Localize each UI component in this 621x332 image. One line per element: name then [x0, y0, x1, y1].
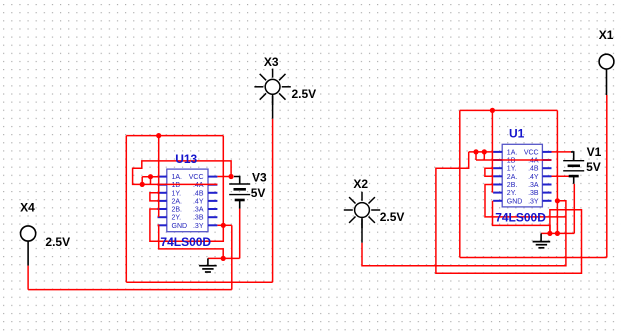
- wire pin 4Y to battery column: [552, 175, 571, 177]
- wire link 1A to 1B row a: [141, 177, 143, 185]
- wire link 1A to 1B a: [475, 152, 477, 160]
- svg-text:.3A: .3A: [528, 182, 539, 189]
- svg-text:2.5V: 2.5V: [380, 210, 405, 224]
- svg-text:5V: 5V: [251, 186, 266, 200]
- svg-text:U13: U13: [175, 152, 197, 166]
- svg-text:1A.: 1A.: [172, 174, 183, 181]
- wire left frame vertical: [125, 136, 127, 283]
- svg-text:.3Y: .3Y: [528, 198, 539, 205]
- svg-text:X4: X4: [20, 200, 35, 214]
- junction node ground bus right a: [547, 231, 552, 236]
- junction node top bus right: [490, 108, 495, 113]
- wire right vertical from top bus to ground bus: [556, 110, 558, 233]
- wire right vertical from top bus down around to pin 2B: [150, 136, 223, 242]
- wire right circuit left frame: [459, 110, 461, 257]
- wire pin 2B under label to X2 riser: [485, 185, 566, 217]
- wire X4 lead red: [27, 266, 29, 290]
- svg-text:1Y.: 1Y.: [172, 190, 182, 197]
- wire X4 bottom horizontal: [28, 289, 232, 291]
- junction node 1A row: [148, 174, 153, 179]
- svg-text:.3Y: .3Y: [193, 223, 204, 230]
- wire GND pin to ground: [158, 225, 224, 258]
- svg-text:2Y.: 2Y.: [172, 215, 182, 222]
- svg-text:.4B: .4B: [528, 166, 539, 173]
- junction node 3Y right: [555, 198, 560, 203]
- svg-text:74LS00D: 74LS00D: [495, 210, 546, 224]
- wire VCC pin to V1 positive: [552, 151, 572, 153]
- wire 1Y to 2A loop: [150, 193, 158, 201]
- svg-text:5V: 5V: [586, 160, 601, 174]
- svg-text:.4A: .4A: [193, 182, 204, 189]
- svg-text:VCC: VCC: [189, 174, 204, 181]
- wire V3 positive loop to pins 1B 4A over body: [133, 161, 232, 185]
- svg-text:74LS00D: 74LS00D: [160, 235, 211, 249]
- svg-text:2A.: 2A.: [172, 198, 183, 205]
- svg-text:2A.: 2A.: [507, 174, 518, 181]
- svg-text:1A.: 1A.: [507, 149, 518, 156]
- wire top bus right circuit: [460, 109, 558, 111]
- svg-text:X2: X2: [353, 177, 368, 191]
- battery V1: [563, 152, 584, 184]
- svg-text:2.5V: 2.5V: [292, 87, 317, 101]
- svg-text:2Y.: 2Y.: [507, 190, 517, 197]
- ground right circuit: [533, 233, 551, 247]
- U13 pin stubs: [158, 177, 218, 226]
- wire 1Y to 2A loop right chip: [485, 168, 493, 176]
- wire X1 riser: [606, 95, 608, 258]
- junction node ground bus right b: [555, 231, 560, 236]
- wire V1 negative riser: [573, 184, 575, 234]
- wire ground bus right circuit: [541, 232, 574, 234]
- junction node 1B row: [140, 182, 145, 187]
- svg-text:.3A: .3A: [193, 207, 204, 214]
- wire pin 1A stub extension: [142, 176, 159, 178]
- junction node ground bus left: [221, 256, 226, 261]
- IC U1 74LS00D body: [502, 144, 542, 207]
- junction node top bus left: [156, 133, 161, 138]
- wire GND pin right chip to ground bus: [493, 201, 551, 234]
- svg-text:GND: GND: [507, 198, 523, 205]
- junction node V3 positive: [229, 174, 234, 179]
- wire X3 riser: [272, 119, 274, 283]
- wire from top bus junction down to pin 2Y: [158, 136, 160, 218]
- svg-text:VCC: VCC: [524, 149, 539, 156]
- wire from top bus junction down to pin 2Y right chip: [491, 110, 493, 192]
- wire big loop 1A to lower right: [436, 152, 582, 273]
- wire X4 riser: [231, 225, 233, 289]
- connector probe X4: [21, 226, 36, 266]
- svg-text:.4B: .4B: [193, 190, 204, 197]
- svg-text:X1: X1: [599, 28, 614, 42]
- wire ground bus left circuit: [208, 257, 240, 259]
- IC U13 74LS00D body: [167, 169, 208, 232]
- probe lamp X3: [254, 69, 290, 119]
- wire link 1A to 1B row b: [150, 177, 152, 185]
- svg-text:2B.: 2B.: [172, 207, 183, 214]
- ground left circuit: [199, 258, 217, 272]
- battery V3: [229, 177, 250, 209]
- wire X2 riser and jog to 3Y junction: [362, 201, 566, 266]
- U1 pin labels: [507, 149, 539, 205]
- wire 1B 4A row over body: [476, 159, 552, 161]
- wire bottom horizontal to X1: [460, 257, 607, 259]
- svg-text:2B.: 2B.: [507, 182, 518, 189]
- svg-text:GND: GND: [172, 223, 188, 230]
- svg-text:.3B: .3B: [528, 190, 539, 197]
- svg-text:V3: V3: [252, 171, 267, 185]
- wire V3 negative riser: [239, 209, 241, 259]
- svg-text:2.5V: 2.5V: [45, 235, 70, 249]
- wire top bus left circuit: [126, 135, 223, 137]
- svg-text:1B: 1B: [507, 158, 516, 165]
- svg-text:.4Y: .4Y: [528, 174, 539, 181]
- wire VCC pin to V3 positive: [217, 176, 231, 178]
- wire pin 3Y jog: [217, 224, 231, 226]
- svg-text:.3B: .3B: [193, 215, 204, 222]
- svg-text:U1: U1: [509, 127, 525, 141]
- connector probe X1: [599, 54, 614, 95]
- junction node 1A row right b: [482, 149, 487, 154]
- svg-text:V1: V1: [587, 145, 602, 159]
- svg-text:.4A: .4A: [528, 158, 539, 165]
- wire 1A row horizontal: [469, 151, 493, 153]
- wire bottom horizontal to X3: [126, 281, 272, 283]
- junction node 1A row right a: [473, 149, 478, 154]
- svg-text:.4Y: .4Y: [193, 198, 204, 205]
- U1 pin stubs: [493, 152, 551, 201]
- probe lamp X2: [344, 192, 380, 243]
- junction node 3Y row: [221, 223, 226, 228]
- svg-text:X3: X3: [264, 55, 279, 69]
- svg-text:1B: 1B: [172, 182, 181, 189]
- U13 pin labels: [172, 174, 204, 230]
- wire link 1A to 1B b: [483, 152, 485, 160]
- svg-text:1Y.: 1Y.: [507, 166, 517, 173]
